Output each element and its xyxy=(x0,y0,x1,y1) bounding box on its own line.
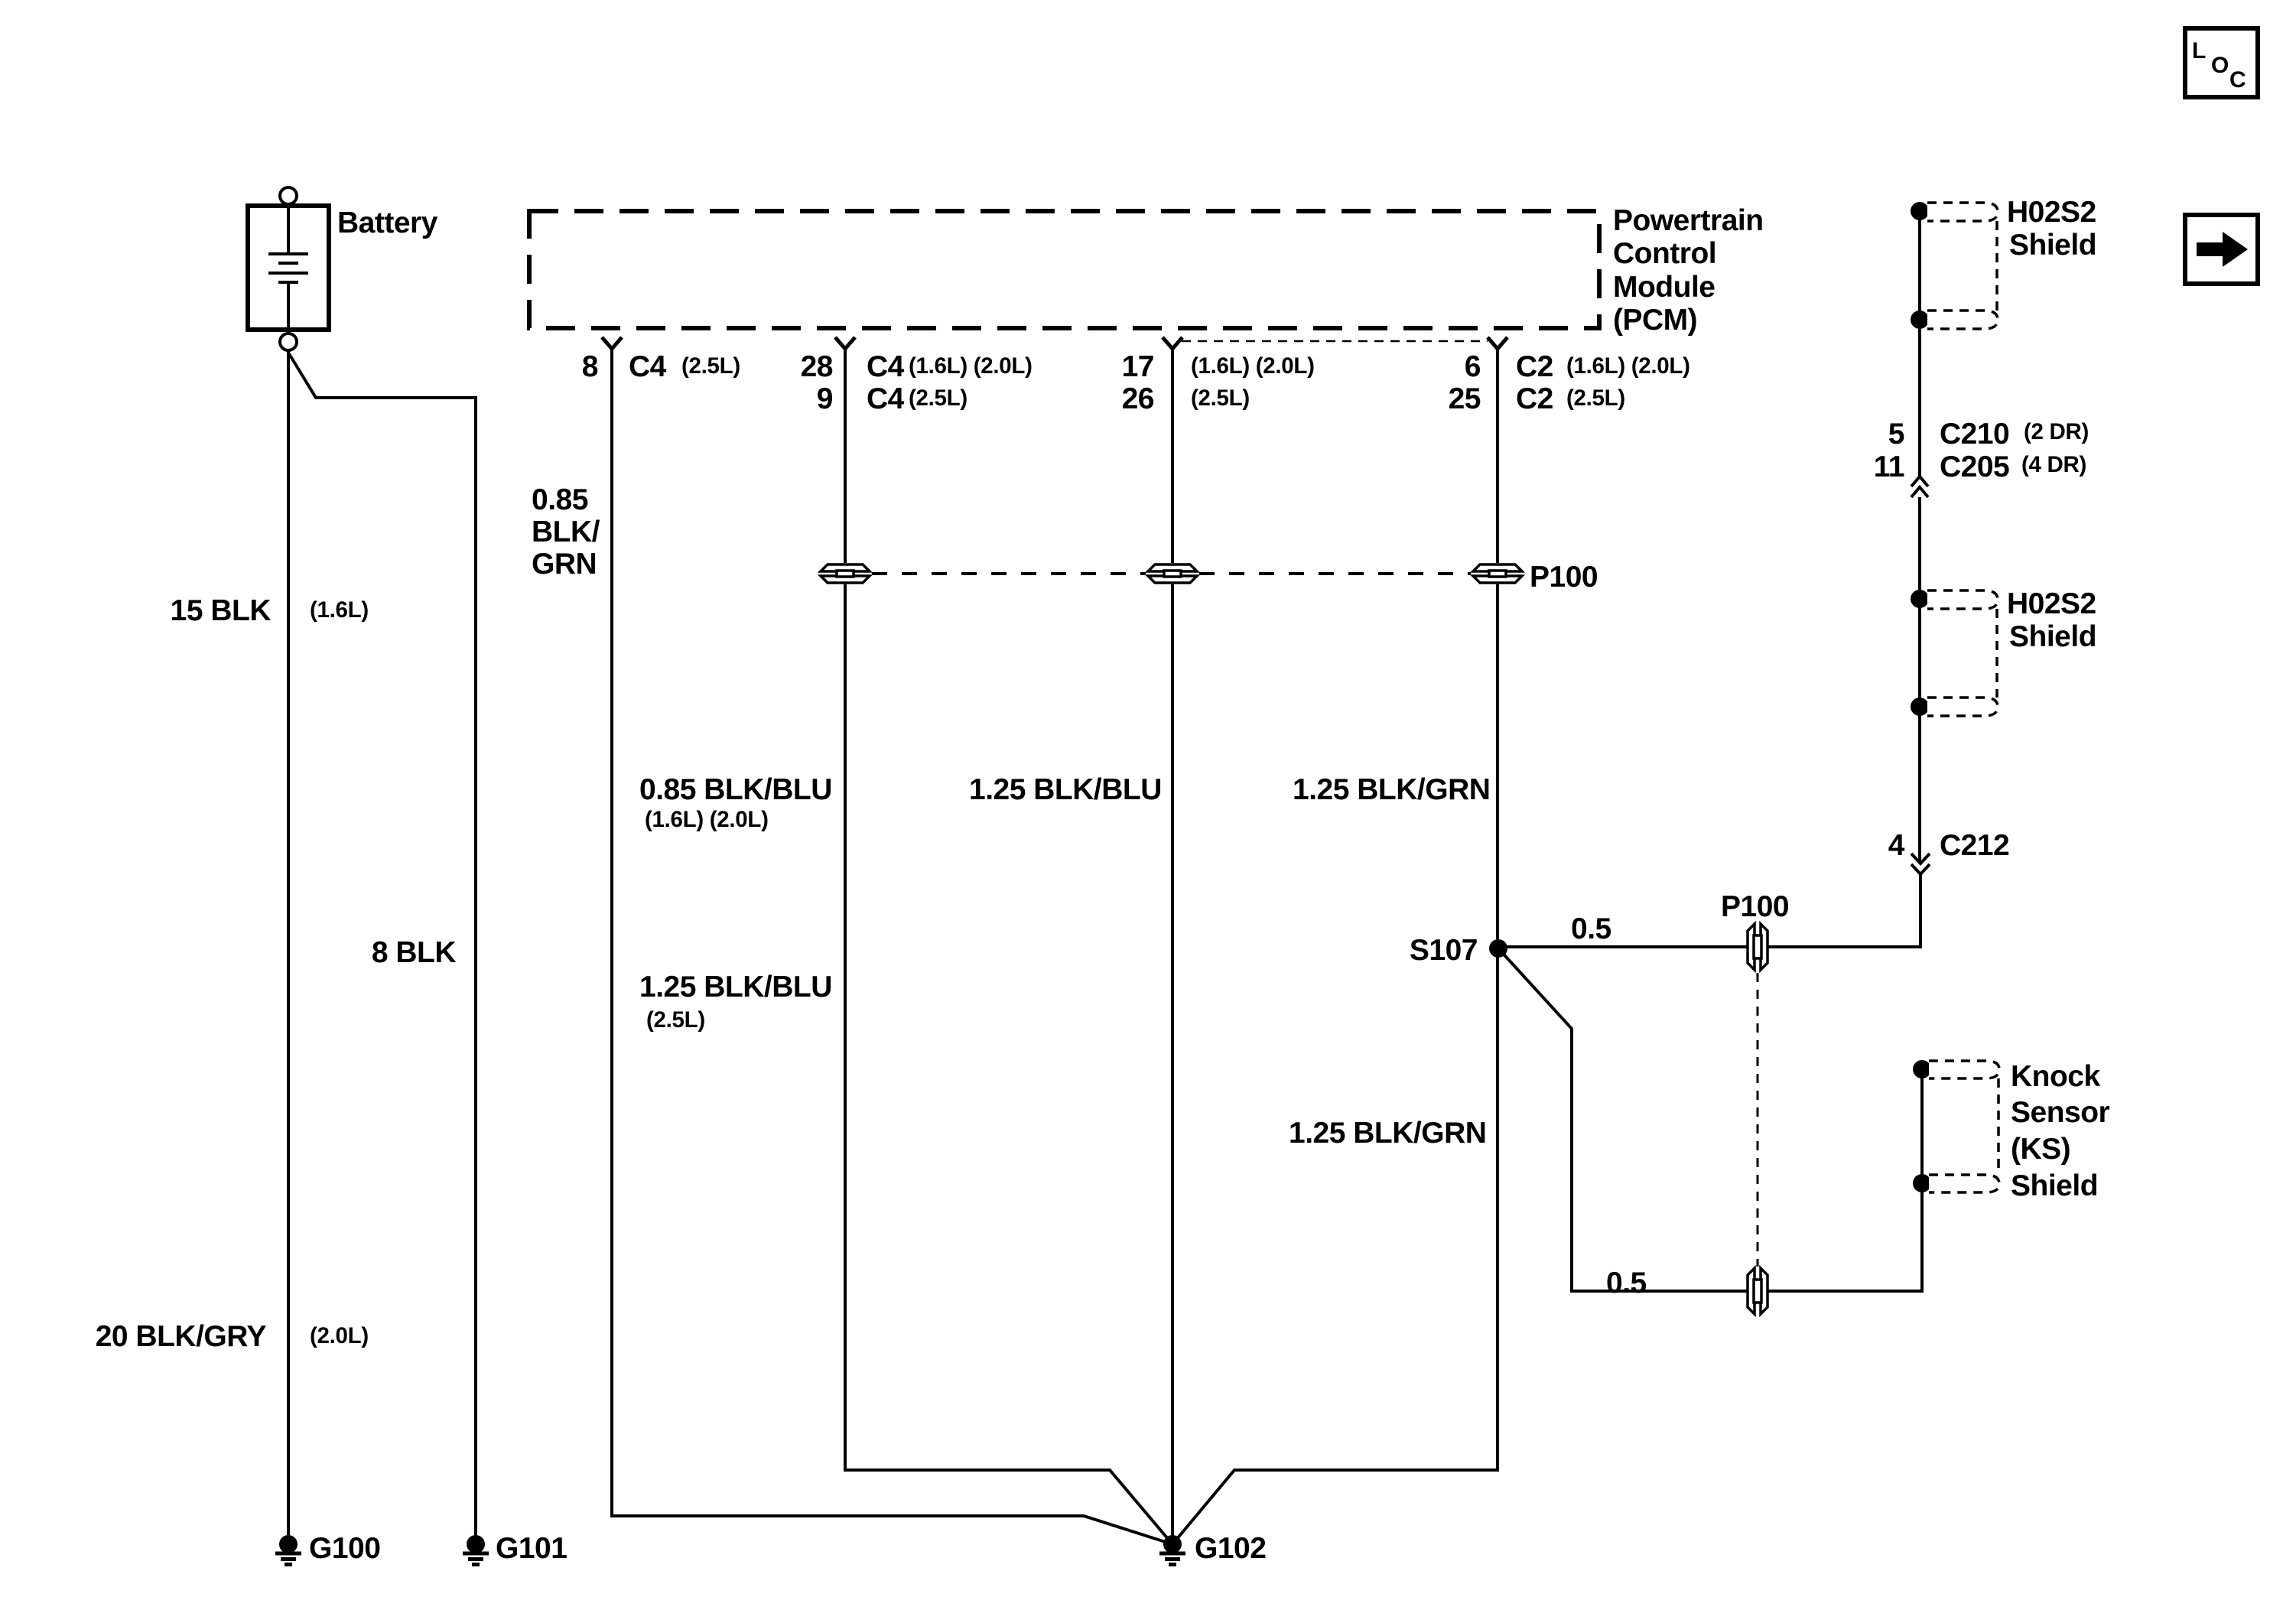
H02S2 shield 1 xyxy=(1911,202,1998,476)
svg-text:H02S2: H02S2 xyxy=(2007,587,2096,620)
pin 8 labels xyxy=(582,350,740,383)
svg-text:Battery: Battery xyxy=(337,207,438,239)
svg-text:17: 17 xyxy=(1122,350,1154,383)
svg-text:15 BLK: 15 BLK xyxy=(171,594,272,627)
PCM label xyxy=(1613,204,1764,337)
LOC reference box xyxy=(2185,28,2258,97)
ground G101 xyxy=(463,1535,489,1565)
H02S2 shield 1 label xyxy=(2007,196,2096,262)
svg-text:GRN: GRN xyxy=(532,548,597,581)
svg-text:(1.6L) (2.0L): (1.6L) (2.0L) xyxy=(909,353,1033,379)
ground G100 xyxy=(275,1535,301,1565)
svg-text:Knock: Knock xyxy=(2011,1060,2101,1093)
svg-text:0.85 BLK/BLU: 0.85 BLK/BLU xyxy=(639,773,832,806)
P100 dashed bulkhead line xyxy=(872,572,1471,575)
connector C212 chevrons xyxy=(1911,854,1930,874)
svg-text:(2.5L): (2.5L) xyxy=(646,1007,705,1033)
pin 28/9 connector fork xyxy=(835,337,855,349)
svg-text:P100: P100 xyxy=(1530,561,1598,594)
svg-text:5: 5 xyxy=(1888,418,1904,450)
wire battery to G100 xyxy=(287,350,290,1544)
svg-text:C: C xyxy=(2229,67,2246,93)
svg-text:P100: P100 xyxy=(1721,890,1789,923)
wire pin 6/25 to G102 xyxy=(1172,349,1498,1544)
svg-text:Shield: Shield xyxy=(2011,1169,2098,1202)
svg-text:11: 11 xyxy=(1874,450,1904,483)
svg-text:1.25 BLK/BLU: 1.25 BLK/BLU xyxy=(969,773,1162,806)
svg-text:1.25 BLK/GRN: 1.25 BLK/GRN xyxy=(1289,1117,1486,1150)
ground G102 xyxy=(1159,1535,1185,1565)
svg-text:(1.6L): (1.6L) xyxy=(310,597,369,623)
wire S107 branch to knock sensor xyxy=(1498,948,1922,1291)
svg-text:BLK/: BLK/ xyxy=(532,516,600,548)
wire H02S2 shield 2 to C212 xyxy=(1918,599,1921,864)
arrow reference box xyxy=(2185,215,2258,284)
svg-text:8: 8 xyxy=(582,350,598,383)
wire label 1.25 BLK/BLU (2.5L) xyxy=(639,971,832,1033)
connector P100 inline upper xyxy=(1748,924,1768,970)
svg-text:Module: Module xyxy=(1613,271,1715,304)
wire pin 8 to G102 xyxy=(612,349,1172,1544)
connector P100 pass-through on wire 6/25 xyxy=(1473,564,1522,583)
splice S107 xyxy=(1489,939,1507,958)
svg-text:0.5: 0.5 xyxy=(1571,912,1611,945)
svg-text:(2.5L): (2.5L) xyxy=(1566,385,1625,411)
battery xyxy=(248,187,329,350)
H02S2 shield 2 label xyxy=(2007,587,2096,653)
svg-text:(1.6L) (2.0L): (1.6L) (2.0L) xyxy=(645,807,769,832)
svg-text:Shield: Shield xyxy=(2009,620,2096,653)
svg-text:G100: G100 xyxy=(309,1532,380,1565)
svg-text:28: 28 xyxy=(801,350,833,383)
pin 17/26 connector fork xyxy=(1163,337,1182,349)
pin 8 connector fork xyxy=(602,337,622,349)
svg-text:C212: C212 xyxy=(1940,829,2009,862)
pin 28/9 labels xyxy=(801,350,1033,415)
svg-text:9: 9 xyxy=(817,382,833,415)
svg-text:6: 6 xyxy=(1465,350,1481,383)
C212 labels xyxy=(1888,829,2009,862)
svg-text:Shield: Shield xyxy=(2009,229,2096,262)
svg-text:0.5: 0.5 xyxy=(1606,1267,1647,1299)
svg-text:1.25 BLK/BLU: 1.25 BLK/BLU xyxy=(639,971,832,1003)
svg-text:C4: C4 xyxy=(867,382,905,415)
wire label 15 BLK xyxy=(171,594,369,627)
connector C210/C205 chevrons xyxy=(1911,476,1928,497)
pin 6/25 labels xyxy=(1449,350,1690,415)
PCM variant connector dashed line xyxy=(1182,340,1488,343)
svg-text:0.85: 0.85 xyxy=(532,483,588,516)
svg-text:Sensor: Sensor xyxy=(2011,1096,2110,1129)
svg-text:Control: Control xyxy=(1613,237,1716,270)
H02S2 shield 2 xyxy=(1911,590,1998,716)
connector P100 pass-through on wire 28/9 xyxy=(821,564,870,583)
svg-text:C2: C2 xyxy=(1516,382,1553,415)
svg-text:C2: C2 xyxy=(1516,350,1553,383)
P100 dashed link vertical xyxy=(1757,973,1759,1267)
wire label 0.85 BLK/BLU xyxy=(639,773,832,832)
svg-text:L: L xyxy=(2192,38,2206,63)
knock sensor label xyxy=(2011,1060,2110,1202)
svg-text:(2.5L): (2.5L) xyxy=(681,353,740,379)
svg-text:(4 DR): (4 DR) xyxy=(2021,452,2086,477)
pin 6/25 connector fork xyxy=(1488,337,1507,349)
svg-text:O: O xyxy=(2211,53,2229,78)
svg-text:C4: C4 xyxy=(629,350,667,383)
svg-text:8 BLK: 8 BLK xyxy=(372,936,457,969)
wire label 0.85 BLK/GRN xyxy=(532,483,600,581)
svg-text:(1.6L) (2.0L): (1.6L) (2.0L) xyxy=(1566,353,1690,379)
svg-text:C205: C205 xyxy=(1940,450,2009,483)
svg-text:(1.6L) (2.0L): (1.6L) (2.0L) xyxy=(1191,353,1315,379)
svg-text:26: 26 xyxy=(1122,382,1154,415)
svg-text:Powertrain: Powertrain xyxy=(1613,204,1764,237)
svg-text:(PCM): (PCM) xyxy=(1613,304,1697,337)
PCM module box xyxy=(529,211,1599,328)
svg-text:S107: S107 xyxy=(1410,934,1478,967)
connector P100 pass-through on wire 17/26 xyxy=(1148,564,1197,583)
svg-text:1.25 BLK/GRN: 1.25 BLK/GRN xyxy=(1293,773,1490,806)
wire S107 to C212 xyxy=(1498,874,1920,947)
wire label 20 BLK/GRY xyxy=(96,1320,369,1353)
svg-text:(2.0L): (2.0L) xyxy=(310,1323,369,1348)
svg-text:(2 DR): (2 DR) xyxy=(2024,419,2089,444)
wire pin 28/9 to G102 xyxy=(845,349,1172,1544)
C210/C205 labels xyxy=(1874,418,2089,483)
svg-text:(2.5L): (2.5L) xyxy=(909,385,968,411)
svg-text:C210: C210 xyxy=(1940,418,2009,450)
svg-text:G102: G102 xyxy=(1195,1532,1266,1565)
pin 17/26 labels xyxy=(1122,350,1315,415)
svg-text:25: 25 xyxy=(1449,382,1481,415)
knock sensor shield xyxy=(1913,1060,1999,1192)
wire C205 to H02S2 shield 2 xyxy=(1918,497,1921,599)
svg-text:G101: G101 xyxy=(496,1532,567,1565)
svg-text:H02S2: H02S2 xyxy=(2007,196,2096,229)
svg-text:20 BLK/GRY: 20 BLK/GRY xyxy=(96,1320,267,1353)
svg-text:C4: C4 xyxy=(867,350,905,383)
svg-text:4: 4 xyxy=(1888,829,1905,862)
svg-text:(2.5L): (2.5L) xyxy=(1191,385,1250,411)
svg-text:(KS): (KS) xyxy=(2011,1133,2070,1166)
connector P100 inline lower xyxy=(1748,1268,1768,1314)
wire pin 17/26 to G102 xyxy=(1171,349,1174,1544)
wire battery branch to G101 xyxy=(288,353,476,1544)
